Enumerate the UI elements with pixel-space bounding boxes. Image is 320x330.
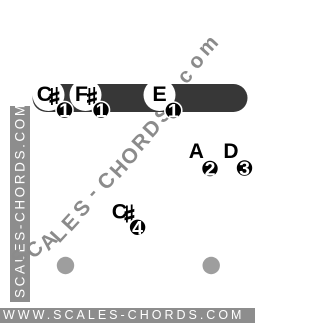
svg-text:SCALES-CHORDS.COM: SCALES-CHORDS.COM — [13, 102, 28, 298]
svg-text:WWW.SCALES-CHORDS.COM: WWW.SCALES-CHORDS.COM — [3, 308, 244, 322]
svg-text:D: D — [223, 140, 238, 163]
svg-text:3: 3 — [239, 158, 250, 180]
svg-text:A: A — [189, 140, 204, 163]
svg-text:F: F — [75, 82, 88, 106]
svg-text:4: 4 — [132, 217, 143, 239]
svg-text:E: E — [152, 82, 166, 106]
svg-text:1: 1 — [96, 100, 107, 122]
svg-text:2: 2 — [205, 159, 216, 181]
svg-text:1: 1 — [59, 100, 70, 122]
svg-text:1: 1 — [168, 101, 179, 123]
